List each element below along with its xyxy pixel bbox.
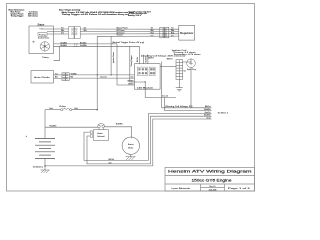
page border frame bbox=[7, 4, 255, 192]
svg-text:Grn: Grn bbox=[109, 162, 112, 164]
svg-text:Red/Wht: Red/Wht bbox=[50, 124, 57, 127]
svg-text:Page 1 of 2: Page 1 of 2 bbox=[228, 188, 251, 190]
wire stub timing loop bbox=[54, 46, 60, 60]
svg-text:Blk/Yel: Blk/Yel bbox=[148, 57, 154, 59]
wire w1 vertical bbox=[161, 62, 163, 108]
svg-text:Lynn Edwards: Lynn Edwards bbox=[172, 187, 192, 190]
wire trigger vertical to CDI bbox=[117, 44, 134, 85]
regulator connector pins bbox=[163, 29, 167, 37]
junction dot cdi pin bbox=[145, 81, 146, 82]
fuse wire bbox=[45, 109, 61, 111]
svg-text:Ground: Ground bbox=[100, 77, 106, 79]
CDI ground stub wire bbox=[145, 82, 176, 98]
labels choke right bbox=[71, 72, 78, 78]
note: stator voltages text block bbox=[59, 9, 135, 17]
stator connector bbox=[69, 27, 81, 39]
wire pickup red/blk bbox=[54, 43, 118, 45]
junction dot choke grn bbox=[110, 74, 111, 75]
wire yellow stator to connector bbox=[41, 28, 69, 30]
labels choke wires bbox=[55, 73, 58, 78]
starter motor label bbox=[128, 143, 134, 149]
svg-text:Blu/Wht: Blu/Wht bbox=[204, 114, 211, 117]
flywheel magneto circle bbox=[40, 42, 49, 51]
svg-text:Solenoid: Solenoid bbox=[97, 136, 104, 138]
coil ground symbol bbox=[176, 88, 183, 91]
note: regulator output text block bbox=[128, 10, 151, 17]
coil ground stem bbox=[178, 79, 180, 87]
svg-text:battery 13.8 V: battery 13.8 V bbox=[128, 14, 142, 17]
svg-text:Red: Red bbox=[171, 33, 174, 35]
auto choke box bbox=[31, 71, 54, 83]
svg-text:CDI Module: CDI Module bbox=[137, 88, 155, 90]
stator box bbox=[29, 26, 54, 54]
wire solenoid pin 1 bbox=[84, 132, 149, 160]
spark plug circle bbox=[187, 59, 196, 68]
svg-text:Blk/Yel: Blk/Yel bbox=[205, 106, 211, 108]
svg-text:Blk/Yel: Blk/Yel bbox=[167, 58, 173, 60]
choke connector bbox=[62, 73, 69, 81]
sheet2 bus wire 1 bbox=[162, 107, 212, 109]
wire yellow connector to regulator bbox=[80, 28, 179, 30]
wire solenoid to starter bbox=[105, 127, 132, 139]
svg-text:Red: Red bbox=[151, 33, 154, 35]
battery ground stem bbox=[44, 166, 46, 170]
wire choke a to grn junction bbox=[69, 74, 134, 76]
svg-text:Regulator: Regulator bbox=[180, 32, 194, 35]
svg-text:Blk/Yel: Blk/Yel bbox=[109, 159, 115, 161]
wire fuse to junction bbox=[72, 109, 97, 111]
junction dot fuse bbox=[96, 109, 98, 111]
battery B1 bbox=[35, 139, 55, 159]
svg-text:Spark Plug: Spark Plug bbox=[187, 69, 196, 71]
svg-text:Hensim ATV Wiring Diagram: Hensim ATV Wiring Diagram bbox=[168, 170, 252, 174]
title block frame bbox=[165, 168, 255, 192]
solenoid label bbox=[97, 132, 104, 138]
svg-text:Ground: Ground bbox=[162, 95, 168, 97]
inline connector arrows bbox=[74, 43, 78, 47]
regulator U1 box bbox=[179, 25, 195, 40]
ground symbol small inside stator bbox=[32, 41, 34, 43]
fuse F1 15A bbox=[61, 108, 72, 111]
wire red vertical battery feed bbox=[96, 36, 98, 109]
svg-text:Grn/Wht: Grn/Wht bbox=[80, 44, 87, 47]
svg-text:Wht: Wht bbox=[84, 29, 88, 32]
labels regulator left column bbox=[151, 28, 155, 38]
labels regulator right column bbox=[171, 28, 175, 38]
svg-text:Blk/Yel: Blk/Yel bbox=[128, 83, 134, 85]
wire blk/yel CDI to coil bbox=[160, 66, 176, 68]
note: ignition coil resistance text block bbox=[172, 49, 202, 56]
svg-text:Grn: Grn bbox=[151, 35, 154, 37]
svg-text:Red/Wht: Red/Wht bbox=[116, 123, 123, 126]
svg-text:Grnd: Grnd bbox=[206, 117, 210, 119]
solenoid contact circles bbox=[98, 124, 105, 130]
svg-text:Blk/Wht: Blk/Wht bbox=[204, 108, 211, 111]
wire plug down to bus bbox=[190, 68, 192, 108]
sheet2 bus wire 5 bbox=[153, 119, 212, 166]
junction dot battery ground bbox=[44, 165, 46, 167]
labels regulator feed wires bbox=[117, 27, 129, 37]
regulator connector bbox=[160, 27, 169, 38]
wire choke b bbox=[54, 77, 63, 79]
svg-text:Grn/Yel: Grn/Yel bbox=[205, 112, 211, 114]
svg-text:Stator: Stator bbox=[38, 23, 45, 26]
svg-text:15 Amp: 15 Amp bbox=[59, 105, 67, 108]
svg-text:Starter: Starter bbox=[128, 143, 134, 146]
svg-text:4-20-2008: 4-20-2008 bbox=[209, 188, 217, 191]
starter ground stem bbox=[130, 154, 132, 156]
svg-text:Grn: Grn bbox=[131, 77, 134, 79]
wire pickup blu/wht bbox=[54, 45, 140, 47]
svg-text:Starter: Starter bbox=[97, 132, 103, 135]
svg-text:Auto Choke: Auto Choke bbox=[34, 76, 51, 79]
wire grn vertical ground bbox=[110, 36, 112, 75]
wire battery to solenoid bbox=[45, 126, 98, 128]
svg-text:Timing Trigger: ±1.5V Pulses 1: Timing Trigger: ±1.5V Pulses 10 mS durat… bbox=[62, 13, 131, 16]
solenoid connector pins bbox=[90, 131, 92, 137]
svg-text:150cc GY6 Engine: 150cc GY6 Engine bbox=[192, 179, 232, 183]
wire choke b to CDI bbox=[69, 77, 134, 79]
pickup coil box inside stator bbox=[38, 33, 47, 37]
starter solenoid K1 box bbox=[94, 130, 109, 141]
svg-text:Blk: Blk bbox=[55, 77, 58, 79]
wire choke a bbox=[54, 74, 63, 76]
stator coil squiggle bbox=[39, 27, 43, 30]
svg-text:Grn: Grn bbox=[61, 33, 64, 35]
wire white connector to regulator bbox=[80, 31, 179, 33]
wire green connector to regulator bbox=[80, 33, 179, 35]
svg-text:12v Battery: 12v Battery bbox=[33, 166, 44, 169]
CDI module box bbox=[134, 64, 160, 89]
svg-text:Blu/Wht: Blu/Wht bbox=[61, 44, 68, 47]
svg-text:Timing: Timing bbox=[42, 57, 49, 59]
CDI left wire labels bbox=[128, 77, 135, 86]
wire blu/wht vertical to CDI bbox=[138, 46, 140, 54]
battery ground symbol hatched bbox=[41, 170, 50, 173]
battery negative wire down bbox=[44, 158, 46, 166]
svg-text:Timing Trigger: Timing Trigger bbox=[131, 55, 133, 66]
ignition coil T1 bbox=[176, 60, 183, 80]
svg-text:Grn: Grn bbox=[171, 35, 174, 37]
starter motor M1 bbox=[122, 137, 139, 154]
wire coil to plug bbox=[183, 59, 191, 62]
stator connector pins bbox=[72, 28, 77, 34]
note: stator resistance text block bbox=[8, 8, 38, 17]
svg-text:Rev 1.0: Rev 1.0 bbox=[210, 186, 216, 188]
svg-text:Blk: Blk bbox=[71, 77, 74, 79]
svg-text:Blk/Yel: Blk/Yel bbox=[137, 56, 139, 62]
battery ground bus wire bbox=[45, 165, 153, 167]
svg-text:Motor: Motor bbox=[128, 146, 133, 149]
wire solenoid pin 2 bbox=[87, 136, 151, 164]
sheet2 bus wire 2 bbox=[165, 98, 212, 111]
battery positive wire up bbox=[44, 110, 46, 139]
svg-text:Ground: Ground bbox=[117, 35, 123, 37]
svg-text:(Actual Trigger Pulse: 4V p-p): (Actual Trigger Pulse: 4V p-p) bbox=[112, 41, 145, 44]
sheet2 bus wire 4 bbox=[151, 116, 212, 164]
svg-text:Timing Trigger:: Timing Trigger: bbox=[11, 15, 25, 18]
wire white stator to connector bbox=[47, 31, 69, 33]
sheet2 bus wire 3 bbox=[149, 113, 212, 160]
svg-text:Red: Red bbox=[50, 108, 53, 110]
wire ignition vertical to CDI bbox=[130, 46, 145, 82]
wire red regulator feed bbox=[97, 35, 179, 37]
svg-text:To Sheet 2: To Sheet 2 bbox=[218, 112, 229, 115]
svg-text:Pick Up: Pick Up bbox=[39, 34, 47, 36]
wire green stator to connector bbox=[47, 33, 69, 35]
CDI top pin stubs bbox=[139, 55, 148, 64]
CDI connector group 2 bbox=[149, 67, 155, 76]
CDI connector group 1 bbox=[137, 67, 147, 76]
starter ground symbol hatched bbox=[126, 157, 136, 160]
svg-text:120 ohms: 120 ohms bbox=[28, 16, 39, 18]
svg-text:(Resting Coil Voltage: 2V): (Resting Coil Voltage: 2V) bbox=[165, 105, 193, 108]
junction dot choke/red bbox=[97, 74, 98, 75]
